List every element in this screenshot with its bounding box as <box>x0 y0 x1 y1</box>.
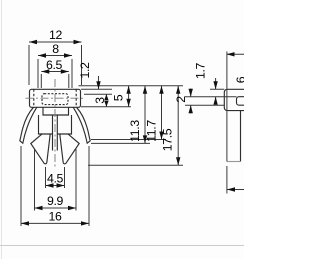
svg-text:12: 12 <box>49 28 62 42</box>
svg-text:11.7: 11.7 <box>145 120 159 142</box>
svg-text:1.2: 1.2 <box>78 62 92 79</box>
svg-text:16: 16 <box>49 210 62 224</box>
svg-text:11.3: 11.3 <box>128 120 142 142</box>
svg-text:6.5: 6.5 <box>46 58 63 72</box>
svg-text:4.5: 4.5 <box>47 172 64 186</box>
svg-text:3: 3 <box>93 97 107 104</box>
svg-text:17.5: 17.5 <box>161 128 175 151</box>
svg-text:9.9: 9.9 <box>47 194 64 208</box>
svg-text:6: 6 <box>234 76 244 83</box>
svg-text:1.7: 1.7 <box>194 62 208 79</box>
svg-text:5: 5 <box>111 94 125 101</box>
svg-text:2: 2 <box>174 96 188 103</box>
svg-text:8: 8 <box>52 42 59 56</box>
